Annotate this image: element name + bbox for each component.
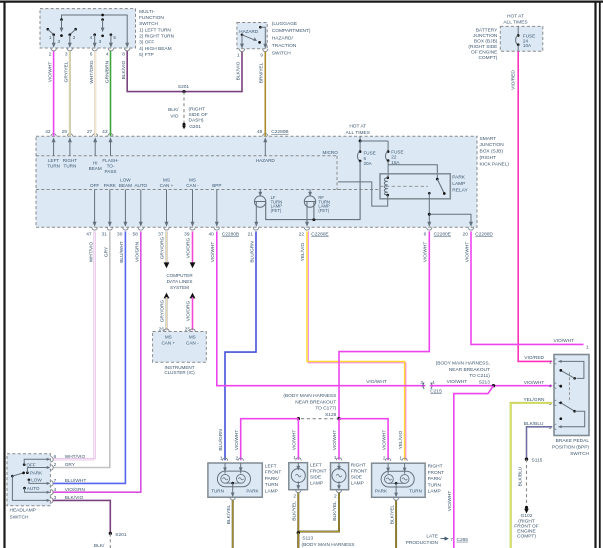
- svg-text:2: 2: [549, 425, 552, 431]
- svg-text:BLK/YEL: BLK/YEL: [226, 504, 232, 524]
- svg-text:37: 37: [158, 231, 164, 237]
- wire BLK/YEL lamp E4 to bottom: [389, 501, 396, 548]
- SJB bottom pin 30 arc: [123, 227, 128, 230]
- wire VIO/ORG SJB pin 39 to data bus arrow: [192, 231, 194, 264]
- svg-text:YEL/GRN: YEL/GRN: [523, 397, 545, 403]
- svg-text:VIO/WHT: VIO/WHT: [381, 430, 387, 451]
- left front side lamp E2 box: [289, 463, 308, 490]
- wire VIO/ORG data bus arrow to IC MS CAN -: [190, 293, 196, 299]
- svg-text:VIO/ORG: VIO/ORG: [186, 300, 192, 321]
- svg-text:BLK/VIO: BLK/VIO: [121, 60, 127, 79]
- wire BLK/VIO headlamp pin 3 to S201: [53, 500, 111, 533]
- wire relay common output to pins 6 and 20: [428, 193, 430, 225]
- splice S128 right dot: [337, 417, 340, 420]
- relay K1 switch blade: [436, 178, 439, 181]
- svg-text:VIO/WHT: VIO/WHT: [553, 338, 574, 344]
- next page left border: [599, 1, 601, 548]
- svg-text:1: 1: [549, 359, 552, 365]
- svg-text:HAZARD: HAZARD: [239, 29, 259, 34]
- lamp E1 pin 2 arc: [238, 458, 243, 461]
- headlamp switch AUTO contact: [23, 487, 26, 490]
- svg-text:GRY/ORG: GRY/ORG: [160, 236, 166, 259]
- svg-text:3: 3: [420, 380, 423, 386]
- BPP mechanical link dashed: [568, 372, 570, 402]
- BPP pin 4 arc: [554, 383, 557, 388]
- svg-text:BLK/BLU: BLK/BLU: [518, 466, 524, 486]
- wire VIO/WHT S128 to right front park/turn lamp pin 2: [339, 419, 388, 461]
- relay divider dashed line: [337, 189, 344, 191]
- lamp E4 bottom pin arc: [393, 498, 398, 501]
- svg-text:WHT/VIO: WHT/VIO: [65, 454, 86, 460]
- svg-text:PARK: PARK: [246, 488, 259, 493]
- SJB internal wire BPP to pin 40: [216, 190, 218, 226]
- wire VIO/WHT S213 to C265 pin 7 (late production): [454, 386, 494, 548]
- svg-text:WHT/VIO: WHT/VIO: [88, 241, 94, 262]
- SJB bottom pin 40 arc: [214, 227, 219, 230]
- wire GRY/ORG data bus arrow to IC MS CAN +: [160, 293, 170, 331]
- svg-text:31: 31: [101, 231, 107, 237]
- svg-text:7: 7: [54, 478, 57, 484]
- svg-text:GRY: GRY: [65, 462, 76, 468]
- SJB bottom pin 58 arc: [138, 227, 143, 230]
- lamp E1 bottom pin arc: [230, 497, 235, 500]
- hazard switch contact and blade: [241, 33, 244, 36]
- wire VIO/WHT S128 to left front park/turn lamp pin 2: [241, 419, 299, 461]
- svg-text:C2280B: C2280B: [222, 231, 239, 237]
- lamp E4 pin 1 arc: [402, 458, 407, 461]
- lamp E3 bottom pin 2 arc: [336, 490, 341, 493]
- inline connector C215: [423, 383, 424, 389]
- wire VIO/WHT S128 to left front side lamp pin 1: [297, 419, 299, 460]
- svg-text:VIO/WHT: VIO/WHT: [366, 379, 387, 385]
- svg-text:TURN: TURN: [409, 489, 422, 494]
- fuse F22 (FUSE 22 15A): [387, 150, 390, 153]
- svg-text:S201: S201: [178, 84, 190, 90]
- SJB internal wire PARK to pin 31: [109, 190, 111, 226]
- MFS switch contact 2 (right turn): [74, 28, 77, 31]
- svg-text:3: 3: [99, 39, 102, 44]
- fuse F24 (FUSE 24 10A): [517, 26, 519, 35]
- wire BLK/VIO MFS pin 8 to S201 to hazard switch: [127, 51, 242, 92]
- wire GRY/YEL MFS pin 3 to SJB pin 29: [64, 51, 70, 136]
- BPP pin 3 arc: [554, 400, 557, 405]
- svg-text:GRY/ORG: GRY/ORG: [160, 299, 166, 322]
- svg-text:22: 22: [299, 231, 305, 237]
- svg-text:VIO/WHT: VIO/WHT: [332, 430, 338, 451]
- wire VIO/WHT SJB pin 6 to S128 and front lamps: [339, 231, 429, 418]
- svg-text:1: 1: [586, 345, 589, 351]
- svg-text:OFF: OFF: [90, 183, 99, 188]
- svg-text:VIO/WHT: VIO/WHT: [48, 62, 54, 83]
- SJB bottom pin 39 arc: [190, 227, 195, 230]
- wire WHT/VIO SJB pin 47 to headlamp switch pin 6: [53, 231, 96, 459]
- MFS pin 4 arc: [108, 48, 113, 51]
- wire GRY SJB pin 31 to headlamp switch pin 2: [53, 231, 110, 467]
- lamp E2 bottom pin 2 arc: [296, 490, 301, 493]
- svg-text:(BODY MAIN HARNESS: (BODY MAIN HARNESS: [302, 542, 355, 548]
- svg-text:C2280D: C2280D: [475, 231, 493, 237]
- svg-text:HAZARD: HAZARD: [256, 158, 276, 163]
- svg-text:VIO/WHT: VIO/WHT: [423, 242, 429, 263]
- MFS pin 3 arc: [67, 48, 72, 51]
- wire YEL/GRN BPP pin 3 down: [511, 397, 553, 548]
- svg-text:YEL/VIO: YEL/VIO: [300, 242, 306, 261]
- svg-text:4: 4: [90, 35, 93, 40]
- svg-text:MICRO: MICRO: [323, 150, 339, 155]
- ground G201: [183, 123, 186, 126]
- SJB micro region inner dashed top line: [36, 155, 337, 157]
- IC pin 25 arc: [190, 329, 195, 332]
- svg-text:2: 2: [293, 494, 296, 500]
- svg-text:1: 1: [49, 35, 52, 40]
- svg-text:LOWBEAM: LOWBEAM: [119, 178, 132, 189]
- headlamp switch common blade: [11, 475, 14, 478]
- svg-text:LOW: LOW: [31, 478, 42, 483]
- lamp E2 bulb: [291, 463, 305, 490]
- wire BRN/YEL hazard pin 9 to SJB pin 49: [264, 52, 266, 137]
- svg-text:AUTO: AUTO: [27, 486, 40, 491]
- wire BLK/YEL lamp E3 to S113: [298, 493, 339, 532]
- wire GRN/BRN MFS pin 4 to SJB pin 43: [110, 51, 112, 136]
- svg-text:VIO/RED: VIO/RED: [524, 355, 544, 361]
- svg-text:VIO/WHT: VIO/WHT: [234, 430, 240, 451]
- IC pin 26 arc: [164, 329, 169, 332]
- svg-text:2: 2: [73, 35, 76, 40]
- SJB bottom pin 20 arc: [468, 227, 473, 230]
- svg-text:2: 2: [334, 494, 337, 500]
- SJB internal wire OFF to pin 47: [94, 190, 96, 226]
- LF turn lamp FET driver Q1: [259, 190, 261, 196]
- svg-text:BLU/GRN: BLU/GRN: [218, 429, 224, 451]
- RF turn lamp FET driver Q2: [309, 190, 311, 196]
- fuse feed stub and junction from SJB top edge: [359, 136, 361, 141]
- wire VIO/RED fuse 24 to BPP switch pin 1: [518, 51, 552, 361]
- svg-text:43: 43: [102, 129, 108, 135]
- svg-text:BLK/BLU: BLK/BLU: [524, 421, 544, 427]
- MFS pin 2 arc: [51, 48, 56, 51]
- MFS internal rail wire: [62, 15, 128, 47]
- svg-text:C215: C215: [430, 388, 442, 394]
- headlamp switch SW3 dashed box: [7, 454, 50, 506]
- svg-text:2: 2: [49, 51, 52, 57]
- svg-text:1: 1: [399, 456, 402, 462]
- lamp E1 pin 1 arc: [222, 458, 227, 461]
- svg-text:BLK/: BLK/: [168, 107, 179, 113]
- MFS pin 8 arc: [125, 48, 130, 51]
- svg-text:58: 58: [132, 231, 138, 237]
- headlamp switch OFF contact: [23, 463, 26, 466]
- park lamp relay K1 box: [380, 174, 450, 199]
- MFS contact 3a (off): [60, 18, 63, 21]
- splice S128 dashed link: [301, 418, 337, 420]
- svg-text:42: 42: [45, 129, 51, 135]
- svg-text:PARK: PARK: [104, 183, 117, 188]
- fuse F6 (FUSE 6 20A): [359, 150, 362, 153]
- splice S213: [492, 384, 495, 387]
- svg-text:27: 27: [87, 129, 93, 135]
- headlamp pin 6 arc: [51, 457, 54, 462]
- SJB bottom pin 37 arc: [164, 227, 169, 230]
- svg-text:AUTO: AUTO: [134, 183, 147, 188]
- svg-text:BLU/GRN: BLU/GRN: [249, 241, 255, 263]
- wire BLK/VIO S201 to G201 (dashed): [183, 92, 185, 124]
- ground G102: [525, 506, 528, 509]
- SJB bottom pin 47 arc: [92, 227, 97, 230]
- lamp E1 dual bulb symbol: [217, 463, 250, 497]
- svg-text:29: 29: [62, 129, 68, 135]
- SJB bottom pin 22 arc: [304, 227, 309, 230]
- svg-text:BLK/: BLK/: [94, 543, 105, 548]
- svg-text:VIO: VIO: [170, 114, 179, 120]
- headlamp pin 2 arc: [51, 465, 54, 470]
- SJB micro region inner dashed right line: [336, 156, 338, 190]
- svg-text:VIO/WHT: VIO/WHT: [447, 379, 468, 385]
- SJB top pin 27 arc and arrow: [93, 134, 98, 137]
- wire WHT/ORG MFS pin 6 to SJB pin 27: [89, 51, 95, 136]
- svg-text:C265: C265: [457, 537, 469, 543]
- SJB micro region inner dashed bottom line: [36, 189, 380, 191]
- svg-text:VIO/WHT: VIO/WHT: [210, 242, 216, 263]
- splice S128 left dot: [297, 417, 300, 420]
- svg-text:S115: S115: [532, 458, 543, 464]
- wire VIO/WHT SJB pin 40 to C215: [217, 231, 425, 385]
- svg-text:C2280E: C2280E: [434, 231, 451, 237]
- svg-text:PARK: PARK: [30, 471, 43, 476]
- svg-text:S113: S113: [302, 536, 313, 542]
- svg-text:30: 30: [117, 231, 123, 237]
- svg-text:BLK/YEL: BLK/YEL: [332, 501, 338, 521]
- svg-text:39: 39: [184, 231, 190, 237]
- wire BLK/VIO S201 dashed to bottom: [109, 533, 111, 548]
- wire fuse 6 output to FET power rail: [266, 161, 360, 220]
- svg-text:VIO/GRN: VIO/GRN: [65, 487, 86, 493]
- MFS pin 6 arc: [92, 48, 97, 51]
- svg-text:26: 26: [159, 326, 165, 332]
- SJB top pin 42 arc and arrow: [51, 134, 56, 137]
- wire BLK/YEL S113 stub down: [297, 533, 299, 548]
- splice S113: [297, 531, 300, 534]
- BPP pin 3 internal wire: [560, 402, 561, 404]
- BPP pin 1 arc: [554, 359, 557, 364]
- wire VIO/WHT S128 to right front side lamp pin 1: [338, 419, 340, 460]
- BPP free contact dot: [559, 417, 562, 420]
- BPP pin 1 internal wire: [560, 361, 584, 378]
- wire VIO/GRN SJB pin 58 to headlamp switch pin 4: [53, 231, 141, 492]
- wire BLK/YEL lamp E2 to S113: [292, 493, 299, 548]
- svg-text:BLK/YEL: BLK/YEL: [292, 501, 298, 521]
- instrument cluster box: [153, 332, 207, 363]
- wire VIO/WHT C215 to S213 to BPP pin 4: [430, 385, 552, 387]
- right front park/turn lamp E4 box: [372, 463, 426, 497]
- relay K1 coil: [386, 176, 389, 179]
- svg-text:GRY/YEL: GRY/YEL: [64, 61, 70, 82]
- svg-text:C2280B: C2280B: [271, 129, 288, 135]
- splice S201 (headlamp): [109, 532, 112, 535]
- BPP switch 2 blade: [559, 401, 562, 404]
- lamp E4 dual bulb symbol: [381, 463, 414, 497]
- svg-text:PARK: PARK: [375, 489, 388, 494]
- right front side lamp E3 box: [331, 463, 349, 490]
- MFS contact 5 (FTP): [110, 33, 113, 36]
- svg-text:WHT/ORG: WHT/ORG: [89, 60, 95, 83]
- svg-text:20: 20: [463, 231, 469, 237]
- wire BLK/YEL lamp E1 to bottom: [226, 500, 233, 548]
- svg-text:VIO/ORG: VIO/ORG: [186, 237, 192, 258]
- svg-text:BRN/YEL: BRN/YEL: [259, 62, 265, 83]
- MFS contact 4 (high beam): [93, 33, 96, 36]
- svg-text:BPP: BPP: [212, 183, 221, 188]
- hazard pin 9 arc: [263, 49, 268, 52]
- SJB top pin 43 arc and arrow: [108, 134, 113, 137]
- svg-text:1: 1: [220, 456, 223, 462]
- svg-text:3: 3: [57, 39, 60, 44]
- svg-text:9: 9: [260, 52, 263, 58]
- BPP pin 2 arc: [554, 424, 557, 429]
- svg-text:BLU/WHT: BLU/WHT: [65, 478, 87, 484]
- svg-text:2: 2: [54, 462, 57, 468]
- junction dot on FET power rail at RF: [312, 218, 315, 221]
- svg-text:4: 4: [54, 487, 57, 493]
- svg-text:6: 6: [54, 454, 57, 460]
- BPP pin 4 internal wire: [560, 385, 561, 387]
- headlamp pin 3 arc: [51, 498, 54, 503]
- headlamp switch PARK contact: [26, 471, 29, 474]
- svg-text:OFF: OFF: [27, 462, 36, 467]
- page frame top border: [0, 1, 603, 3]
- svg-text:VIO/GRN: VIO/GRN: [135, 241, 141, 262]
- BPP pin 2 internal wire: [560, 411, 585, 427]
- SJB bottom pin 31 arc: [107, 227, 112, 230]
- SJB bottom pin 21 arc: [253, 227, 258, 230]
- svg-text:S201: S201: [115, 532, 127, 538]
- wire BLK/BLU BPP pin 2 to S115: [527, 427, 553, 459]
- lamp E3 pin 1 arc: [336, 458, 341, 461]
- svg-text:1: 1: [334, 455, 337, 461]
- page frame right border: [594, 1, 596, 548]
- hazard left pin internal wire: [241, 35, 243, 48]
- svg-text:49: 49: [257, 129, 263, 135]
- wire YEL/VIO SJB pin 22 to right front park/turn lamp pin 1: [300, 231, 406, 460]
- svg-text:VIO/WHT: VIO/WHT: [447, 491, 453, 512]
- svg-text:GRN/BRN: GRN/BRN: [104, 60, 110, 83]
- svg-text:25: 25: [185, 326, 191, 332]
- wire GRY/ORG SJB pin 37 to data bus arrow: [160, 231, 170, 268]
- wire VIO/WHT SJB pin 20 to next page pin 1: [471, 231, 584, 344]
- headlamp switch LOW contact: [28, 478, 31, 481]
- svg-text:RIGHTTURN: RIGHTTURN: [63, 158, 77, 169]
- svg-text:YEL/VIO: YEL/VIO: [398, 430, 404, 449]
- svg-text:5: 5: [113, 35, 116, 40]
- hazard pin 1 arc: [239, 49, 244, 52]
- MFS contact 3b (off): [101, 14, 104, 17]
- svg-text:VIO/RED: VIO/RED: [511, 70, 517, 90]
- svg-text:BLK/YEL: BLK/YEL: [389, 504, 395, 524]
- svg-text:6: 6: [90, 51, 93, 57]
- svg-text:4: 4: [106, 51, 109, 57]
- brake pedal position switch SW4 box: [554, 355, 589, 436]
- svg-text:7: 7: [450, 537, 453, 543]
- splice S201 (dash area): [182, 90, 185, 93]
- svg-text:LEFTTURN: LEFTTURN: [47, 158, 60, 169]
- svg-text:47: 47: [86, 231, 92, 237]
- wire fuse 22 output to relay coil: [387, 161, 389, 178]
- svg-text:TURN: TURN: [211, 488, 224, 493]
- svg-text:40: 40: [208, 231, 214, 237]
- svg-text:6: 6: [424, 231, 427, 237]
- lamp E2 pin 1 arc: [296, 458, 301, 461]
- svg-text:INSTRUMENTCLUSTER (IC): INSTRUMENTCLUSTER (IC): [164, 365, 195, 375]
- hazard switch SW2 dashed box: [237, 23, 267, 49]
- headlamp pin 7 arc: [51, 481, 54, 486]
- wire VIO/WHT MFS pin 2 to SJB pin 42: [53, 51, 55, 136]
- left front park/turn lamp E1 box: [208, 463, 262, 497]
- SJB internal wire AUTO to pin 58: [140, 190, 142, 226]
- battery junction box dashed box: [500, 26, 543, 51]
- svg-text:2: 2: [383, 456, 386, 462]
- SJB top pin 29 arc and arrow: [67, 134, 72, 137]
- page frame left border: [3, 1, 5, 548]
- svg-text:GRY: GRY: [104, 246, 110, 257]
- SJB bottom pin 6 arc: [427, 227, 432, 230]
- SJB internal wire MS CAN - to pin 39: [192, 190, 194, 226]
- svg-text:8: 8: [122, 51, 125, 57]
- svg-text:4: 4: [549, 384, 552, 390]
- wire BLU/WHT SJB pin 30 to headlamp switch pin 7: [53, 231, 126, 483]
- smart junction box U1 (SJB) dashed box: [36, 136, 477, 227]
- svg-text:C2280E: C2280E: [311, 231, 328, 237]
- svg-text:2: 2: [236, 456, 239, 462]
- wire relay coil return to micro: [338, 182, 388, 206]
- MFS switch contact 1 (left turn): [46, 28, 49, 31]
- svg-text:VIO/WHT: VIO/WHT: [524, 380, 545, 386]
- wire fuse 22 output to relay contact: [388, 165, 437, 179]
- svg-text:BLU/WHT: BLU/WHT: [119, 241, 125, 263]
- wire BLU/GRN SJB pin 21 to left front park/turn lamp pin 1: [225, 231, 256, 460]
- BPP switch 1 blade: [573, 377, 576, 380]
- svg-text:VIO/WHT: VIO/WHT: [292, 430, 298, 451]
- lamp E4 pin 2 arc: [385, 458, 390, 461]
- headlamp pin 4 arc: [51, 490, 54, 495]
- lamp E3 bulb: [332, 463, 346, 490]
- svg-text:VIO/WHT: VIO/WHT: [464, 242, 470, 263]
- svg-text:1: 1: [237, 52, 240, 58]
- svg-text:21: 21: [248, 231, 254, 237]
- multi-function switch SW1 dashed box: [40, 9, 136, 48]
- svg-text:1: 1: [293, 455, 296, 461]
- arrow to C265 pin 7: [441, 538, 447, 540]
- splice S115: [525, 458, 528, 461]
- wire BLK/BLU S115 to G102 (dashed): [526, 459, 528, 507]
- svg-text:3: 3: [65, 51, 68, 57]
- svg-text:BLK/VIO: BLK/VIO: [235, 61, 241, 80]
- SJB internal wire MS CAN + to pin 37: [166, 190, 168, 226]
- svg-text:G201: G201: [189, 124, 201, 130]
- SJB internal wire LOW BEAM to pin 30: [124, 190, 126, 226]
- SJB top pin 49 arc and arrow: [263, 134, 268, 137]
- hazard right pin internal wire: [259, 26, 262, 29]
